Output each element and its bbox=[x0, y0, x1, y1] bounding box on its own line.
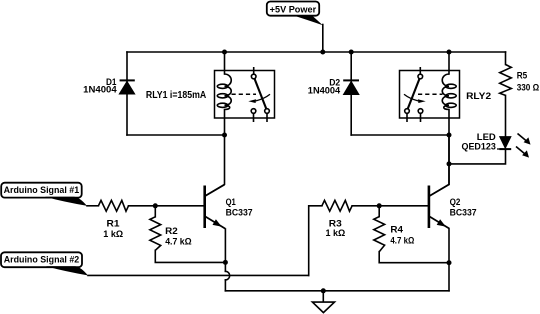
relay RLY1 switch common terminal bbox=[251, 74, 256, 79]
svg-text:BC337: BC337 bbox=[226, 207, 253, 218]
wire D1 branch vertical bbox=[126, 52, 128, 135]
resistor R3 bbox=[322, 200, 352, 211]
relay RLY2 coil bbox=[442, 74, 449, 110]
node rail/+5V tap bbox=[320, 50, 325, 55]
svg-text:RLY1 i=185mA: RLY1 i=185mA bbox=[146, 90, 207, 101]
wire RLY2 coil bottom to Q2 collector bbox=[430, 110, 449, 196]
relay RLY1 NC pin stub bbox=[253, 113, 255, 122]
resistor R2 bbox=[150, 217, 161, 251]
node R1/R2/Q1 base bbox=[153, 203, 158, 208]
wire R4 top lead bbox=[378, 206, 380, 217]
svg-text:1 kΩ: 1 kΩ bbox=[103, 229, 123, 240]
wire +5V power rail bbox=[127, 51, 506, 53]
wire signal2 rise to R3 bbox=[309, 206, 322, 276]
relay RLY1 box bbox=[215, 71, 275, 119]
wire Q1 emitter down bbox=[224, 229, 226, 271]
LED emission arrow 2 bbox=[516, 147, 525, 155]
relay RLY1 switch common pin stub bbox=[253, 67, 255, 74]
relay RLY1 coil bbox=[225, 74, 232, 110]
node R2 return / Q1 emitter bbox=[223, 260, 228, 265]
wire Q1 emitter hop over signal2 bbox=[225, 271, 229, 280]
wire D2 branch vertical bbox=[350, 52, 352, 135]
transistor Q1 bbox=[205, 185, 226, 229]
node D2/coil/Q2 collector bbox=[447, 133, 452, 138]
node ground rail / ground symbol bbox=[321, 288, 326, 293]
relay RLY2 NC terminal bbox=[418, 109, 423, 114]
wire R5 top from rail bbox=[505, 52, 507, 65]
node rail/RLY2 coil bbox=[447, 50, 452, 55]
svg-text:Arduino Signal #1: Arduino Signal #1 bbox=[4, 185, 80, 196]
svg-text:4.7 kΩ: 4.7 kΩ bbox=[390, 236, 414, 247]
relay RLY1 motion arrow bbox=[256, 94, 270, 101]
svg-text:Q2: Q2 bbox=[450, 197, 461, 208]
wire R2 return to Q1 emitter bbox=[155, 250, 225, 262]
flag Arduino Signal #2 bbox=[1, 252, 88, 275]
diode D2 bbox=[343, 80, 359, 94]
svg-text:4.7 kΩ: 4.7 kΩ bbox=[165, 236, 192, 247]
wire +5V drop from power flag bbox=[322, 25, 324, 53]
resistor R4 bbox=[374, 217, 385, 252]
wire Q2 emitter down to ground rail bbox=[448, 229, 450, 291]
node rail/RLY1 coil bbox=[222, 50, 227, 55]
relay RLY2 NO terminal bbox=[405, 109, 410, 114]
svg-text:Q1: Q1 bbox=[226, 197, 237, 208]
svg-text:1 kΩ: 1 kΩ bbox=[326, 228, 346, 239]
LED emission arrow 1 bbox=[518, 134, 527, 142]
diode D1 bbox=[119, 80, 135, 94]
wire Q2 collector up to LED node bbox=[448, 135, 450, 184]
wire ground rail bbox=[225, 290, 449, 292]
wire R1 to base node bbox=[129, 205, 156, 207]
wire R2 top lead bbox=[154, 206, 156, 217]
relay RLY2 bbox=[400, 67, 460, 122]
wire R3 to base node 2 bbox=[352, 205, 379, 207]
node R4 return / Q2 emitter bbox=[447, 260, 452, 265]
LED D3 QED123 bbox=[499, 134, 530, 158]
wire signal2 flag horizontal bbox=[88, 274, 309, 276]
transistor Q2 bbox=[429, 185, 450, 229]
relay RLY2 motion arrow bbox=[404, 94, 418, 101]
relay RLY1 NO terminal bbox=[265, 109, 270, 114]
svg-text:QED123: QED123 bbox=[462, 141, 496, 152]
wire LED return bbox=[449, 149, 506, 164]
wire D1 return horizontal bbox=[127, 134, 225, 136]
resistor R1 bbox=[98, 200, 128, 211]
power flag +5V Power bbox=[267, 2, 323, 26]
wire RLY1 coil bottom to Q1 collector bbox=[205, 110, 224, 196]
svg-text:1N4004: 1N4004 bbox=[308, 85, 341, 96]
wire R4 return to Q2 emitter bbox=[379, 252, 449, 263]
relay RLY2 NC pin stub bbox=[420, 113, 422, 122]
relay RLY2 box bbox=[400, 71, 460, 119]
svg-text:+5V Power: +5V Power bbox=[270, 4, 317, 15]
relay RLY2 actuation dashed link bbox=[418, 93, 443, 95]
wire D2 return horizontal bbox=[351, 134, 449, 136]
svg-text:Arduino Signal #2: Arduino Signal #2 bbox=[4, 255, 80, 266]
relay RLY2 NO pin stub bbox=[406, 113, 408, 122]
flag Arduino Signal #1 bbox=[1, 183, 87, 206]
resistor R5 bbox=[500, 65, 512, 96]
node rail/D2 bbox=[349, 50, 354, 55]
relay RLY2 switch common pin stub bbox=[419, 67, 421, 74]
node LED return / Q2 collector bbox=[447, 161, 452, 166]
wire R5 to LED bbox=[505, 95, 507, 136]
wire signal1 flag to R1 bbox=[87, 205, 98, 207]
wire base node 2 to Q2 base bbox=[379, 205, 428, 207]
svg-text:R4: R4 bbox=[390, 225, 403, 236]
svg-text:330 Ω: 330 Ω bbox=[517, 82, 540, 93]
wire RLY2 coil top bbox=[448, 52, 450, 74]
wire Q1 emitter to ground rail bbox=[224, 280, 226, 291]
relay RLY1 NC terminal bbox=[251, 109, 256, 114]
svg-text:1N4004: 1N4004 bbox=[83, 85, 117, 96]
relay RLY2 switch common terminal bbox=[418, 74, 423, 79]
node R3/R4/Q2 base bbox=[377, 203, 382, 208]
LED label leader line bbox=[497, 148, 504, 150]
ground bbox=[312, 291, 334, 313]
wire RLY1 coil top bbox=[224, 52, 226, 74]
wire base node to Q1 base bbox=[155, 205, 204, 207]
relay RLY1 bbox=[215, 67, 275, 122]
svg-text:R5: R5 bbox=[517, 71, 528, 82]
node D1/coil/Q1 collector bbox=[222, 133, 227, 138]
relay RLY1 NO pin stub bbox=[266, 113, 268, 122]
relay RLY1 actuation dashed link bbox=[232, 93, 257, 95]
svg-text:BC337: BC337 bbox=[450, 207, 477, 218]
svg-text:RLY2: RLY2 bbox=[466, 91, 491, 102]
relay RLY2 switch arm bbox=[408, 79, 420, 109]
relay RLY1 switch arm bbox=[255, 79, 267, 109]
